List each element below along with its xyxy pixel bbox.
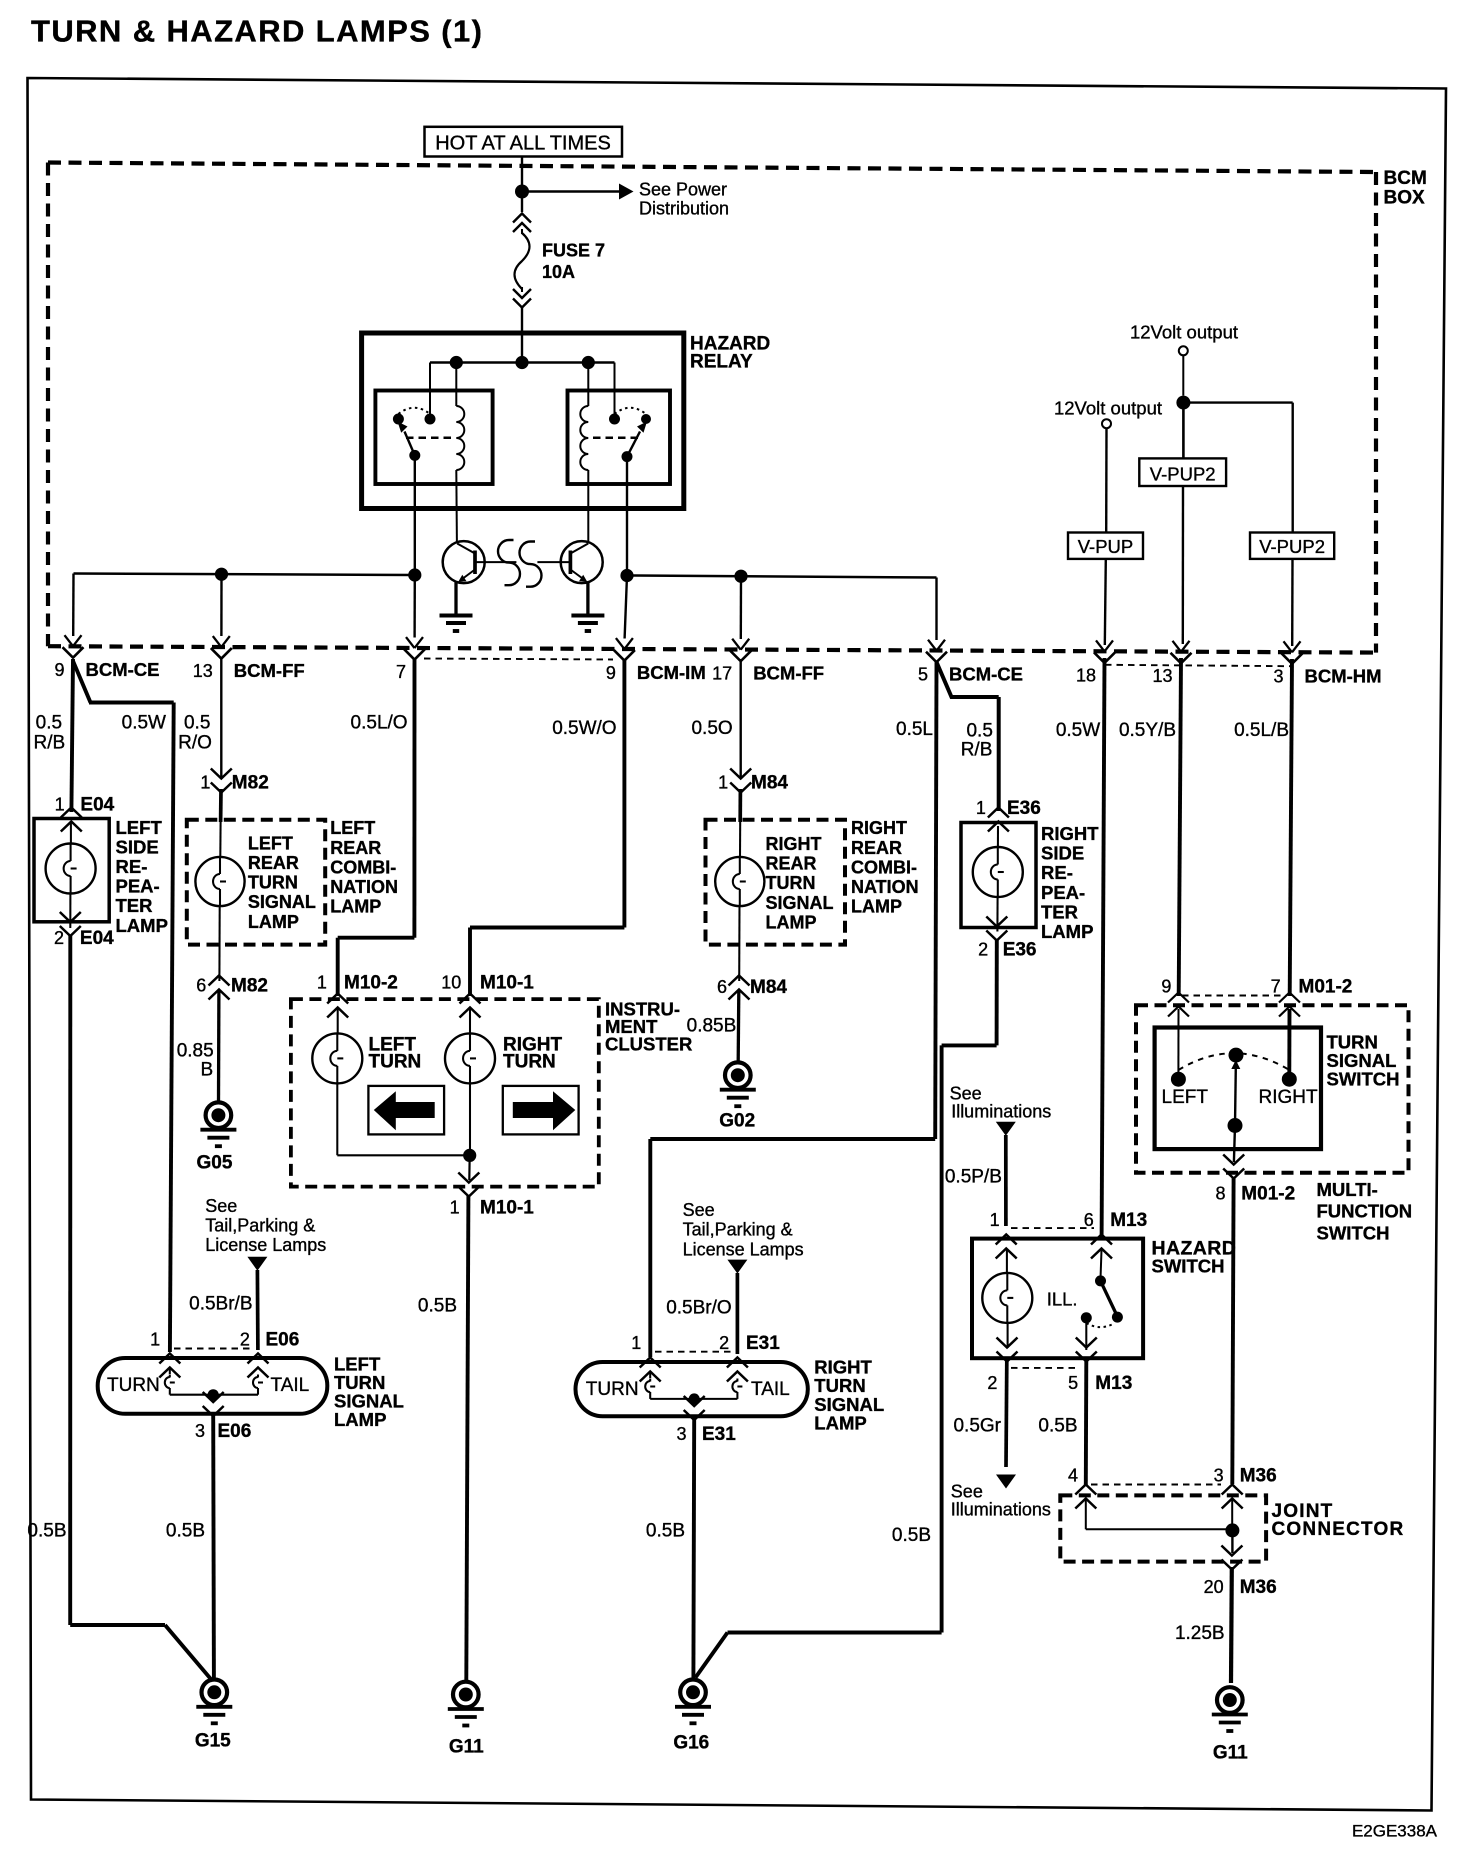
svg-text:0.5B: 0.5B — [27, 1521, 66, 1542]
svg-text:LAMP: LAMP — [1041, 921, 1093, 942]
svg-text:SIGNAL: SIGNAL — [248, 892, 316, 912]
svg-text:M01-2: M01-2 — [1299, 977, 1353, 998]
svg-text:Illuminations: Illuminations — [951, 1102, 1051, 1122]
svg-text:2: 2 — [978, 940, 988, 960]
svg-text:10: 10 — [441, 973, 461, 993]
svg-text:M82: M82 — [231, 975, 268, 996]
svg-text:PEA-: PEA- — [116, 876, 160, 897]
svg-text:1: 1 — [55, 795, 65, 815]
svg-text:PEA-: PEA- — [1041, 882, 1085, 903]
svg-text:2: 2 — [719, 1333, 729, 1353]
svg-text:0.5Br/O: 0.5Br/O — [666, 1298, 731, 1319]
svg-text:REAR: REAR — [330, 838, 381, 858]
svg-text:1: 1 — [990, 1210, 1000, 1230]
svg-text:LEFT: LEFT — [330, 818, 375, 838]
svg-text:1: 1 — [718, 773, 728, 793]
svg-text:0.5Gr: 0.5Gr — [953, 1416, 1001, 1437]
svg-text:2: 2 — [54, 928, 64, 948]
svg-text:E2GE338A: E2GE338A — [1352, 1822, 1438, 1841]
svg-text:0.5W/O: 0.5W/O — [552, 718, 616, 739]
svg-text:See: See — [683, 1200, 715, 1220]
svg-text:CONNECTOR: CONNECTOR — [1272, 1519, 1405, 1540]
svg-text:0.5Br/B: 0.5Br/B — [189, 1294, 252, 1315]
svg-text:RIGHT: RIGHT — [851, 818, 907, 838]
svg-text:1: 1 — [450, 1198, 460, 1218]
svg-text:LAMP: LAMP — [334, 1409, 386, 1430]
svg-text:RE-: RE- — [116, 856, 148, 877]
svg-text:TAIL: TAIL — [271, 1375, 310, 1396]
svg-text:M10-2: M10-2 — [344, 973, 398, 994]
svg-text:RIGHT: RIGHT — [766, 834, 822, 854]
svg-text:LEFT: LEFT — [116, 817, 163, 838]
svg-text:TURN: TURN — [766, 873, 816, 893]
svg-text:2: 2 — [240, 1330, 250, 1350]
svg-text:R/O: R/O — [178, 732, 212, 753]
svg-text:TURN: TURN — [586, 1379, 639, 1400]
svg-text:RELAY: RELAY — [690, 352, 753, 373]
svg-text:7: 7 — [1271, 977, 1281, 997]
svg-text:V-PUP2: V-PUP2 — [1259, 536, 1325, 557]
svg-text:0.85B: 0.85B — [687, 1016, 737, 1037]
svg-text:1: 1 — [317, 973, 327, 993]
svg-text:LAMP: LAMP — [116, 915, 168, 936]
svg-text:BCM-FF: BCM-FF — [753, 663, 824, 684]
svg-text:20: 20 — [1204, 1577, 1224, 1597]
svg-text:BCM-HM: BCM-HM — [1305, 665, 1382, 686]
svg-text:3: 3 — [1273, 666, 1283, 686]
svg-text:SWITCH: SWITCH — [1152, 1255, 1225, 1276]
svg-text:7: 7 — [396, 662, 406, 682]
svg-text:13: 13 — [193, 661, 213, 681]
svg-text:E06: E06 — [266, 1330, 300, 1351]
svg-text:M84: M84 — [750, 977, 787, 998]
svg-text:TURN: TURN — [107, 1375, 160, 1396]
svg-text:M01-2: M01-2 — [1241, 1184, 1295, 1205]
svg-text:BCM-CE: BCM-CE — [86, 659, 160, 680]
svg-text:NATION: NATION — [851, 877, 919, 897]
svg-text:RIGHT: RIGHT — [1259, 1087, 1319, 1108]
svg-text:0.5L: 0.5L — [896, 719, 933, 740]
svg-text:G02: G02 — [719, 1110, 755, 1131]
svg-text:E36: E36 — [1003, 940, 1037, 961]
svg-text:0.5B: 0.5B — [646, 1521, 685, 1542]
svg-text:12Volt output: 12Volt output — [1054, 398, 1162, 419]
svg-text:TURN: TURN — [369, 1052, 422, 1073]
svg-text:HOT AT ALL TIMES: HOT AT ALL TIMES — [435, 133, 611, 155]
svg-text:RIGHT: RIGHT — [1041, 823, 1099, 844]
svg-text:0.5B: 0.5B — [418, 1296, 457, 1317]
svg-text:6: 6 — [196, 975, 206, 995]
svg-text:5: 5 — [1068, 1373, 1078, 1393]
svg-text:G11: G11 — [1213, 1743, 1248, 1764]
svg-text:E31: E31 — [746, 1333, 780, 1354]
svg-text:0.5W: 0.5W — [1056, 720, 1100, 741]
svg-text:E04: E04 — [80, 795, 114, 816]
svg-text:5: 5 — [918, 665, 928, 685]
svg-text:BOX: BOX — [1384, 188, 1426, 209]
svg-text:COMBI-: COMBI- — [330, 857, 396, 877]
svg-text:10A: 10A — [542, 262, 575, 282]
svg-text:0.5B: 0.5B — [892, 1525, 931, 1546]
svg-text:E36: E36 — [1007, 798, 1041, 819]
svg-text:See Power: See Power — [639, 180, 727, 200]
svg-text:SIDE: SIDE — [1041, 843, 1084, 864]
svg-text:LAMP: LAMP — [766, 912, 817, 932]
svg-text:M82: M82 — [232, 773, 269, 794]
svg-text:TER: TER — [1041, 901, 1078, 922]
svg-text:BCM-IM: BCM-IM — [637, 662, 706, 683]
svg-text:G16: G16 — [673, 1732, 709, 1753]
svg-text:BCM: BCM — [1384, 168, 1427, 189]
svg-text:13: 13 — [1152, 666, 1172, 686]
svg-text:REAR: REAR — [248, 853, 299, 873]
svg-text:1: 1 — [976, 798, 986, 818]
svg-text:M10-1: M10-1 — [480, 973, 534, 994]
svg-text:18: 18 — [1076, 665, 1096, 685]
svg-text:0.5O: 0.5O — [691, 718, 732, 739]
svg-text:9: 9 — [606, 663, 616, 683]
svg-text:G05: G05 — [197, 1152, 233, 1173]
svg-text:1: 1 — [631, 1333, 641, 1353]
svg-text:E04: E04 — [80, 928, 114, 949]
svg-text:E06: E06 — [218, 1421, 252, 1442]
svg-text:0.85: 0.85 — [177, 1040, 214, 1061]
svg-text:FUSE 7: FUSE 7 — [542, 241, 605, 261]
svg-text:9: 9 — [1161, 977, 1171, 997]
svg-text:0.5B: 0.5B — [1038, 1416, 1077, 1437]
svg-text:COMBI-: COMBI- — [851, 857, 917, 877]
svg-text:3: 3 — [1214, 1466, 1224, 1486]
svg-text:17: 17 — [712, 664, 732, 684]
svg-text:ILL.: ILL. — [1047, 1288, 1078, 1309]
svg-text:2: 2 — [987, 1373, 997, 1393]
svg-text:TURN & HAZARD LAMPS (1): TURN & HAZARD LAMPS (1) — [31, 14, 483, 49]
svg-text:LAMP: LAMP — [814, 1412, 866, 1433]
svg-text:0.5L/B: 0.5L/B — [1234, 720, 1289, 741]
svg-text:SWITCH: SWITCH — [1327, 1068, 1400, 1089]
svg-text:R/B: R/B — [961, 740, 993, 761]
svg-text:TURN: TURN — [248, 873, 298, 893]
svg-text:FUNCTION: FUNCTION — [1317, 1201, 1413, 1222]
svg-text:BCM-FF: BCM-FF — [234, 660, 305, 681]
svg-text:M84: M84 — [751, 773, 788, 794]
svg-text:B: B — [201, 1060, 214, 1081]
svg-text:Tail,Parking &: Tail,Parking & — [683, 1220, 793, 1240]
svg-text:1: 1 — [150, 1330, 160, 1350]
svg-text:0.5B: 0.5B — [166, 1521, 205, 1542]
svg-text:6: 6 — [1084, 1210, 1094, 1230]
svg-text:M36: M36 — [1240, 1466, 1277, 1487]
svg-text:SIGNAL: SIGNAL — [766, 893, 834, 913]
svg-text:0.5Y/B: 0.5Y/B — [1119, 720, 1176, 741]
svg-text:M13: M13 — [1110, 1210, 1147, 1231]
svg-text:0.5W: 0.5W — [122, 713, 166, 734]
svg-text:0.5P/B: 0.5P/B — [945, 1167, 1002, 1188]
svg-text:REAR: REAR — [766, 854, 817, 874]
svg-text:9: 9 — [54, 660, 64, 680]
svg-text:License Lamps: License Lamps — [205, 1235, 326, 1255]
svg-text:NATION: NATION — [330, 877, 398, 897]
svg-text:3: 3 — [676, 1424, 686, 1444]
svg-text:TER: TER — [116, 895, 153, 916]
svg-text:RE-: RE- — [1041, 862, 1073, 883]
svg-text:See: See — [950, 1083, 982, 1103]
svg-text:E31: E31 — [702, 1424, 736, 1445]
svg-text:1: 1 — [200, 773, 210, 793]
svg-text:R/B: R/B — [34, 732, 66, 753]
svg-text:V-PUP2: V-PUP2 — [1150, 463, 1216, 484]
svg-text:TAIL: TAIL — [751, 1379, 790, 1400]
svg-text:LAMP: LAMP — [330, 897, 381, 917]
svg-text:LEFT: LEFT — [248, 833, 293, 853]
svg-text:G15: G15 — [195, 1731, 231, 1752]
svg-text:REAR: REAR — [851, 838, 902, 858]
svg-text:M36: M36 — [1240, 1577, 1277, 1598]
svg-text:12Volt output: 12Volt output — [1130, 322, 1238, 343]
svg-text:Tail,Parking &: Tail,Parking & — [205, 1215, 315, 1235]
svg-text:Distribution: Distribution — [639, 199, 729, 219]
svg-text:CLUSTER: CLUSTER — [605, 1034, 692, 1055]
svg-text:License Lamps: License Lamps — [683, 1239, 804, 1259]
svg-text:MULTI-: MULTI- — [1317, 1179, 1378, 1200]
svg-text:LAMP: LAMP — [248, 912, 299, 932]
svg-text:LAMP: LAMP — [851, 897, 902, 917]
svg-text:3: 3 — [195, 1421, 205, 1441]
svg-text:4: 4 — [1068, 1466, 1078, 1486]
svg-text:SIDE: SIDE — [116, 836, 159, 857]
svg-text:1.25B: 1.25B — [1175, 1623, 1225, 1644]
svg-text:6: 6 — [717, 977, 727, 997]
svg-text:0.5: 0.5 — [966, 721, 992, 742]
svg-text:TURN: TURN — [503, 1052, 556, 1073]
svg-text:BCM-CE: BCM-CE — [949, 664, 1023, 685]
svg-text:M10-1: M10-1 — [480, 1198, 534, 1219]
svg-text:0.5: 0.5 — [36, 713, 62, 734]
svg-text:Illuminations: Illuminations — [951, 1500, 1051, 1520]
svg-text:0.5L/O: 0.5L/O — [351, 713, 408, 734]
svg-text:8: 8 — [1215, 1184, 1225, 1204]
svg-text:See: See — [205, 1196, 237, 1216]
svg-text:G11: G11 — [449, 1737, 484, 1758]
svg-text:SWITCH: SWITCH — [1317, 1222, 1390, 1243]
svg-text:0.5: 0.5 — [184, 713, 210, 734]
svg-text:See: See — [951, 1481, 983, 1501]
svg-text:V-PUP: V-PUP — [1078, 536, 1134, 557]
svg-text:LEFT: LEFT — [1162, 1087, 1209, 1108]
svg-text:M13: M13 — [1095, 1373, 1132, 1394]
